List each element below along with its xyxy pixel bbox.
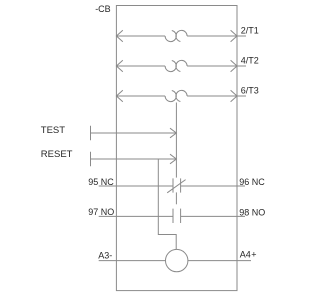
wire 95 (terminal 95)	[99, 185, 173, 187]
svg-text:96 NC: 96 NC	[239, 177, 265, 187]
label A3 -	[98, 250, 112, 260]
thermal element E2 (pole 2)	[165, 60, 187, 71]
label RESET	[41, 149, 73, 160]
svg-text:98 NO: 98 NO	[239, 207, 265, 217]
svg-text:2/T1: 2/T1	[241, 25, 259, 35]
label 95 NC	[88, 177, 114, 187]
terminal label 2/T1	[241, 25, 259, 35]
svg-text:+: +	[251, 250, 256, 260]
supply circle (electronics)	[166, 249, 188, 271]
label -CB	[95, 4, 111, 14]
terminal label 4/T2	[241, 55, 259, 65]
svg-text:4/T2: 4/T2	[241, 55, 259, 65]
thermal element E1 (pole 1)	[165, 30, 187, 41]
label 98 NO	[239, 207, 265, 217]
pole 2 right arrowhead	[231, 60, 237, 71]
TEST actuator wire	[91, 126, 177, 141]
wire 98 (terminal 98)	[181, 215, 245, 217]
svg-text:A3-: A3-	[98, 250, 112, 260]
svg-text:RESET: RESET	[41, 149, 73, 160]
svg-text:-CB: -CB	[95, 4, 111, 14]
TEST arrowhead	[170, 128, 176, 138]
thermal element E3 (pole 3)	[165, 90, 187, 101]
label 96 NC	[239, 177, 265, 187]
pole 2 left arrowhead	[116, 60, 122, 71]
relay outline -CB	[116, 6, 237, 291]
NC contact 95-96	[167, 178, 185, 192]
RESET actuator wire	[91, 152, 177, 167]
pole 2 wire	[116, 65, 246, 67]
pole 3 left arrowhead	[116, 90, 122, 101]
NO contact 97-98	[173, 209, 181, 223]
label A4 +	[240, 250, 257, 260]
wire 96 (terminal 96)	[181, 185, 245, 187]
pole 3 wire	[116, 95, 246, 97]
svg-text:97 NO: 97 NO	[88, 207, 114, 217]
svg-text:95 NC: 95 NC	[88, 177, 114, 187]
svg-text:6/T3: 6/T3	[241, 85, 259, 95]
svg-text:A4: A4	[240, 250, 251, 260]
pole 3 right arrowhead	[231, 90, 237, 101]
pole 1 left arrowhead	[116, 30, 122, 41]
label TEST	[41, 125, 65, 136]
pole 1 wire	[116, 35, 246, 37]
wire A4 (terminal A4)	[188, 260, 251, 262]
svg-text:TEST: TEST	[41, 125, 65, 136]
mechanism linkage wire lower	[175, 192, 177, 204]
RESET arrowhead	[170, 154, 176, 164]
label 97 NO	[88, 207, 114, 217]
pole 1 right arrowhead	[231, 30, 237, 41]
RESET linkage wire to supply	[158, 159, 176, 249]
terminal label 6/T3	[241, 85, 259, 95]
mechanism linkage wire upper	[175, 103, 177, 178]
wire 97 (terminal 97)	[99, 215, 173, 217]
wire A3 (terminal A3)	[99, 260, 166, 262]
